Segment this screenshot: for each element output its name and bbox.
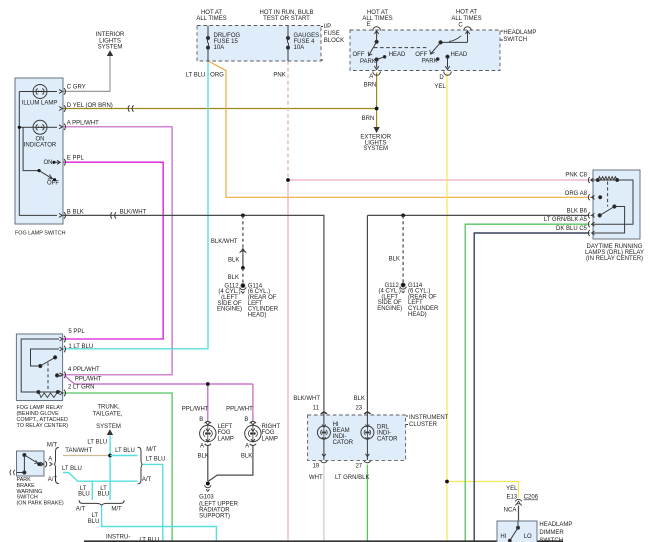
- svg-text:BLK/WHT: BLK/WHT: [120, 210, 147, 216]
- svg-text:ENGINE): ENGINE): [217, 307, 242, 313]
- svg-text:A/T: A/T: [142, 477, 152, 483]
- svg-text:LAMP: LAMP: [262, 437, 278, 443]
- svg-text:23: 23: [355, 406, 362, 412]
- svg-text:PPL/WHT: PPL/WHT: [226, 406, 253, 412]
- svg-text:SWITCH: SWITCH: [539, 538, 563, 542]
- svg-text:10A: 10A: [294, 45, 305, 51]
- svg-text:A: A: [245, 444, 249, 450]
- svg-text:BLK: BLK: [241, 454, 252, 460]
- svg-text:OFF: OFF: [47, 181, 59, 187]
- svg-text:BLK: BLK: [198, 454, 209, 460]
- svg-text:HI: HI: [500, 534, 506, 540]
- svg-text:LT BLU: LT BLU: [87, 439, 107, 445]
- svg-text:ORG: ORG: [210, 73, 224, 79]
- svg-text:TRUNK,: TRUNK,: [97, 404, 120, 410]
- svg-text:A/T: A/T: [76, 506, 86, 512]
- svg-text:BLK: BLK: [389, 257, 400, 263]
- svg-text:HOT AT: HOT AT: [201, 10, 222, 16]
- svg-text:E13: E13: [506, 495, 517, 501]
- svg-text:BLU: BLU: [78, 492, 90, 498]
- svg-text:A PPL/WHT: A PPL/WHT: [67, 120, 99, 126]
- svg-text:FUSE: FUSE: [324, 31, 340, 37]
- svg-text:C GRY: C GRY: [67, 85, 86, 91]
- svg-text:CLUSTER: CLUSTER: [409, 422, 438, 428]
- svg-text:YEL: YEL: [506, 486, 518, 492]
- svg-text:A: A: [200, 444, 204, 450]
- svg-text:LT BLU: LT BLU: [139, 537, 159, 542]
- svg-text:1 LT BLU: 1 LT BLU: [68, 344, 93, 350]
- svg-text:INSTRU-: INSTRU-: [106, 534, 130, 540]
- svg-text:OFF: OFF: [415, 52, 427, 58]
- svg-text:HEAD): HEAD): [248, 312, 267, 318]
- svg-text:BLK: BLK: [228, 258, 239, 264]
- svg-text:CATOR: CATOR: [333, 440, 354, 446]
- svg-text:ON: ON: [44, 160, 53, 166]
- svg-text:LO: LO: [524, 534, 532, 540]
- svg-text:M/T: M/T: [47, 442, 58, 448]
- svg-text:LT BLU: LT BLU: [62, 466, 82, 472]
- svg-text:10A: 10A: [214, 45, 225, 51]
- svg-text:PARK: PARK: [360, 59, 376, 65]
- svg-text:TEST OR START: TEST OR START: [263, 16, 310, 22]
- svg-text:11: 11: [313, 406, 320, 412]
- svg-text:LT GRN/BLK: LT GRN/BLK: [335, 475, 369, 481]
- svg-text:ALL TIMES: ALL TIMES: [451, 16, 481, 22]
- svg-text:HEADLAMP: HEADLAMP: [539, 522, 572, 528]
- svg-text:CATOR: CATOR: [377, 437, 398, 443]
- svg-text:INTERIOR: INTERIOR: [96, 32, 125, 38]
- svg-text:(IN RELAY CENTER): (IN RELAY CENTER): [586, 256, 643, 262]
- svg-text:SYSTEM: SYSTEM: [98, 45, 123, 51]
- svg-text:A/T: A/T: [48, 477, 58, 483]
- svg-text:PPL/WHT: PPL/WHT: [182, 406, 209, 412]
- svg-text:FOG: FOG: [262, 430, 275, 436]
- svg-text:ILLUM LAMP: ILLUM LAMP: [22, 100, 58, 106]
- svg-text:LT GRN/BLK A5: LT GRN/BLK A5: [544, 217, 588, 223]
- svg-text:BLU: BLU: [98, 492, 110, 498]
- svg-text:HEAD: HEAD: [451, 52, 468, 58]
- svg-text:BLK/WHT: BLK/WHT: [293, 396, 320, 402]
- svg-text:E PPL: E PPL: [67, 155, 85, 161]
- svg-text:HOT AT: HOT AT: [367, 10, 388, 16]
- svg-text:BLK: BLK: [354, 396, 365, 402]
- svg-text:TAILGATE,: TAILGATE,: [93, 411, 123, 417]
- svg-text:27: 27: [355, 464, 362, 470]
- svg-text:M/T: M/T: [146, 447, 157, 453]
- svg-text:ORG A8: ORG A8: [565, 191, 588, 197]
- svg-text:19: 19: [312, 464, 319, 470]
- svg-text:B: B: [244, 417, 248, 423]
- svg-text:ON: ON: [36, 137, 45, 143]
- svg-text:LAMP: LAMP: [218, 437, 234, 443]
- svg-text:FOG LAMP SWITCH: FOG LAMP SWITCH: [15, 231, 66, 237]
- svg-text:TO RELAY CENTER): TO RELAY CENTER): [17, 423, 69, 429]
- svg-text:INSTRUMENT: INSTRUMENT: [409, 415, 449, 421]
- svg-text:DIMMER: DIMMER: [539, 530, 564, 536]
- svg-text:PNK C8: PNK C8: [565, 172, 587, 178]
- svg-text:DK BLU C5: DK BLU C5: [556, 226, 588, 232]
- svg-text:B: B: [199, 417, 203, 423]
- svg-text:PPL/WHT: PPL/WHT: [75, 376, 102, 382]
- svg-text:BLK B6: BLK B6: [567, 208, 588, 214]
- svg-text:LT BLU: LT BLU: [115, 448, 135, 454]
- svg-text:C: C: [458, 22, 463, 28]
- svg-text:ALL TIMES: ALL TIMES: [362, 16, 392, 22]
- svg-text:BRN: BRN: [364, 83, 377, 89]
- svg-text:FOG: FOG: [218, 430, 231, 436]
- svg-text:5 PPL: 5 PPL: [68, 329, 85, 335]
- svg-text:LIGHTS: LIGHTS: [99, 38, 121, 44]
- svg-text:HOT IN RUN, BULB: HOT IN RUN, BULB: [260, 10, 314, 16]
- svg-text:HEAD: HEAD: [389, 52, 406, 58]
- svg-text:SYSTEM: SYSTEM: [96, 424, 121, 430]
- svg-text:2 LT GRN: 2 LT GRN: [68, 385, 94, 391]
- svg-text:BLK: BLK: [228, 275, 239, 281]
- svg-text:HEADLAMP: HEADLAMP: [503, 30, 536, 36]
- svg-text:PARK: PARK: [422, 59, 438, 65]
- svg-text:INDICATOR: INDICATOR: [24, 143, 57, 149]
- svg-text:NCA: NCA: [504, 508, 517, 514]
- svg-text:D YEL (OR BRN): D YEL (OR BRN): [67, 103, 113, 109]
- svg-text:ALL TIMES: ALL TIMES: [196, 16, 226, 22]
- svg-text:ENGINE): ENGINE): [377, 306, 402, 312]
- svg-text:C206: C206: [524, 495, 539, 501]
- svg-text:A: A: [48, 457, 52, 463]
- svg-text:I/P: I/P: [324, 24, 331, 30]
- svg-text:WHT: WHT: [309, 475, 323, 481]
- svg-text:HOT AT: HOT AT: [456, 9, 477, 15]
- svg-text:(ON PARK BRAKE): (ON PARK BRAKE): [17, 500, 64, 506]
- svg-text:BLU: BLU: [88, 519, 100, 525]
- svg-text:4 PPL/WHT: 4 PPL/WHT: [68, 367, 100, 373]
- svg-text:BLOCK: BLOCK: [324, 38, 344, 44]
- svg-text:B BLK: B BLK: [67, 210, 84, 216]
- svg-text:YEL: YEL: [434, 84, 446, 90]
- svg-text:PNK: PNK: [273, 73, 285, 79]
- svg-text:G103: G103: [199, 494, 214, 500]
- svg-text:HEAD): HEAD): [408, 312, 427, 318]
- svg-text:E: E: [367, 22, 371, 28]
- svg-text:LT BLU: LT BLU: [146, 456, 166, 462]
- svg-text:SYSTEM: SYSTEM: [363, 146, 388, 152]
- svg-text:BLK/WHT: BLK/WHT: [211, 239, 238, 245]
- svg-text:A: A: [369, 74, 373, 80]
- svg-text:M/T: M/T: [111, 506, 122, 512]
- svg-text:BRN: BRN: [362, 116, 375, 122]
- svg-text:SWITCH: SWITCH: [503, 37, 527, 43]
- svg-text:TAN/WHT: TAN/WHT: [65, 448, 92, 454]
- svg-text:SUPPORT): SUPPORT): [199, 513, 230, 519]
- svg-text:D: D: [439, 75, 444, 81]
- svg-text:OFF: OFF: [353, 52, 365, 58]
- svg-text:LT BLU: LT BLU: [186, 73, 206, 79]
